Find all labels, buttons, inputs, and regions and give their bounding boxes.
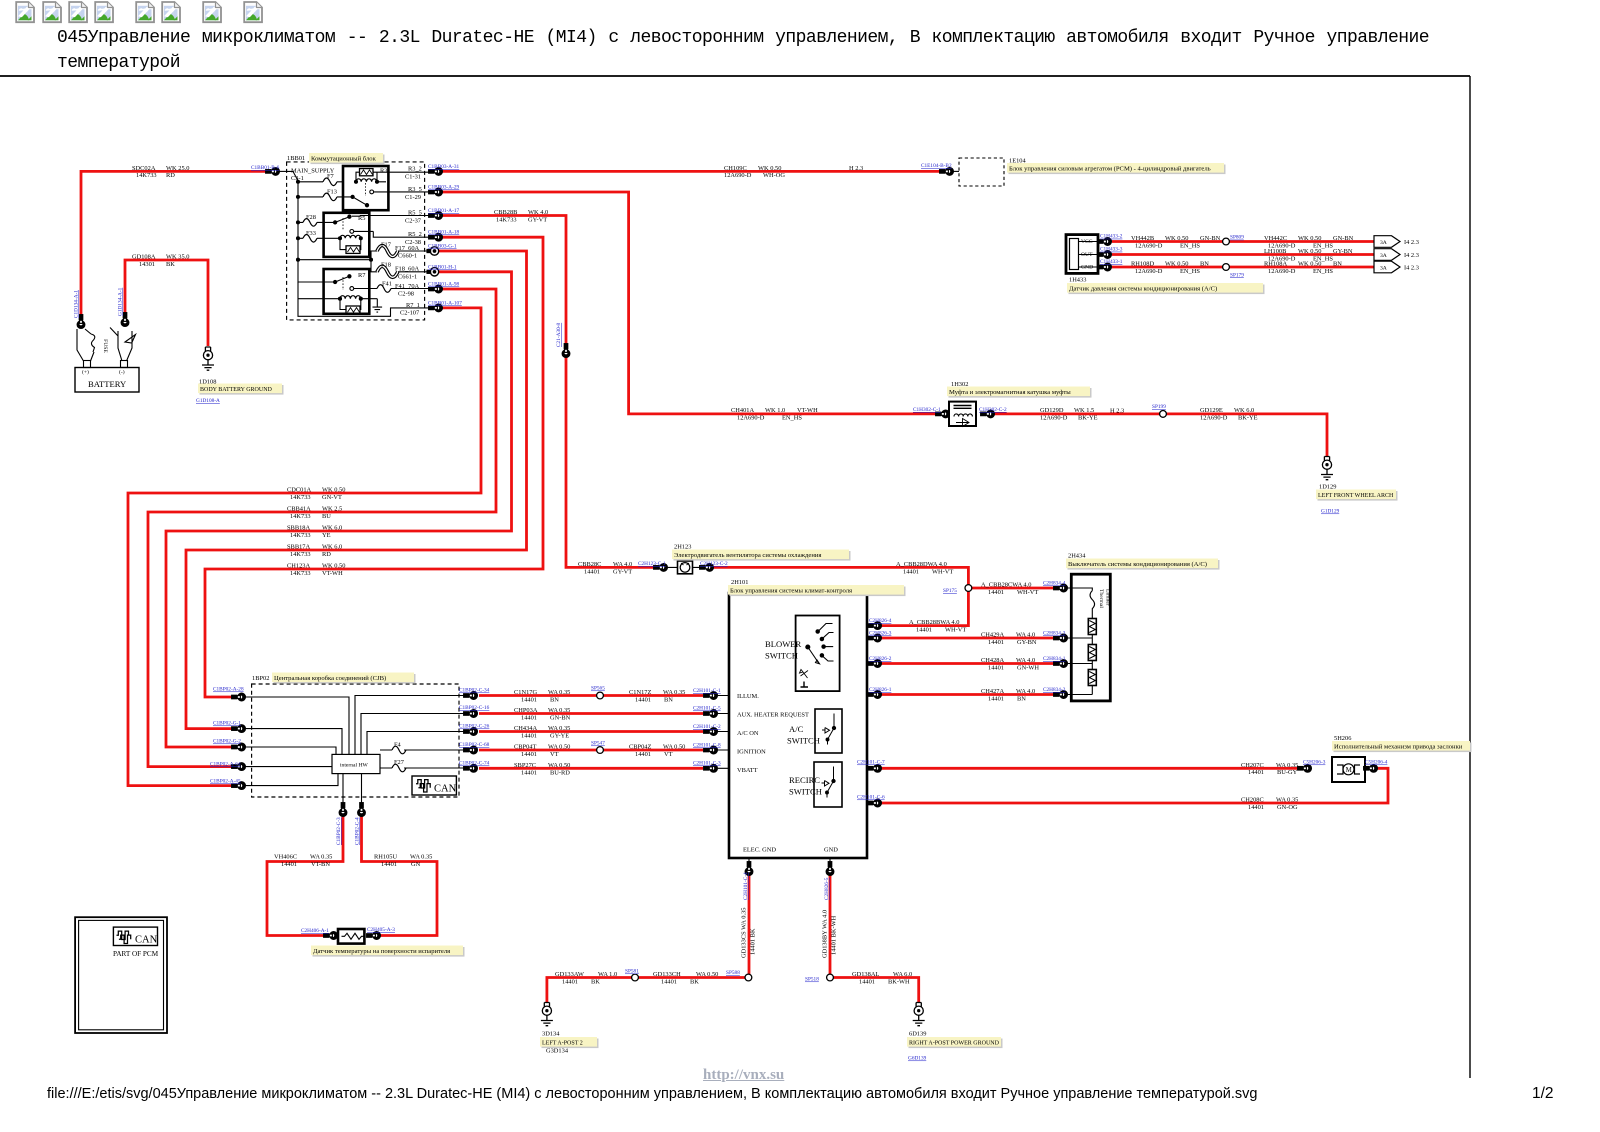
svg-text:C1BP02-A-45: C1BP02-A-45 [210, 779, 241, 785]
wire CH208C [881, 768, 1388, 803]
wire RH108D/RH108A [1112, 266, 1374, 269]
ground inside 1BB01 [373, 299, 383, 312]
wire CH123A chain [205, 237, 543, 697]
svg-text:WK 25.0: WK 25.0 [166, 165, 189, 172]
svg-text:H 2.3: H 2.3 [1110, 408, 1124, 415]
connector C1BP02-C-34 [464, 692, 478, 700]
svg-text:14401: 14401 [635, 696, 651, 703]
svg-text:CH427A: CH427A [981, 688, 1004, 695]
svg-text:internal HW: internal HW [340, 763, 369, 769]
wire GD108A battery ground [125, 260, 208, 346]
svg-text:BN: BN [1017, 695, 1026, 702]
fan motor 2H123 [678, 561, 693, 574]
svg-text:BN: BN [550, 696, 559, 703]
svg-text:2H101: 2H101 [731, 579, 748, 586]
svg-text:AUX. HEATER REQUEST: AUX. HEATER REQUEST [737, 712, 809, 719]
svg-text:6D139: 6D139 [909, 1031, 926, 1038]
svg-text:SP179: SP179 [1230, 272, 1244, 278]
svg-text:C2H826-3: C2H826-3 [869, 631, 892, 637]
svg-text:GD138AL: GD138AL [852, 971, 879, 978]
connector C2H826-2 [868, 660, 882, 668]
svg-text:CAN: CAN [135, 935, 158, 946]
svg-text:WA 1.0: WA 1.0 [598, 971, 617, 978]
svg-text:WK 0.50: WK 0.50 [1165, 261, 1188, 268]
svg-text:C1BB01-A-18: C1BB01-A-18 [428, 230, 460, 236]
wire CDC01A chain [128, 308, 481, 786]
svg-text:C1BB01-A-98: C1BB01-A-98 [428, 282, 460, 288]
wire SBB17A chain [186, 251, 527, 729]
svg-text:C1BP02-C-4: C1BP02-C-4 [355, 817, 361, 845]
svg-text:14K733: 14K733 [290, 532, 311, 539]
svg-text:VBATT: VBATT [737, 767, 758, 774]
wire CH434A a/c on [479, 730, 703, 733]
svg-text:WK 35.0: WK 35.0 [166, 253, 189, 260]
svg-text:I4 2.3: I4 2.3 [1404, 239, 1419, 246]
svg-text:WA 0.50: WA 0.50 [548, 744, 570, 751]
svg-text:GD108A: GD108A [132, 253, 156, 260]
connector C2H405-A-3 [367, 932, 381, 940]
connector C1BB03-G-1 [427, 247, 439, 255]
RECIRC switch in 2H101 [814, 762, 842, 807]
svg-text:1BP02: 1BP02 [252, 675, 269, 682]
svg-text:G1D108-A: G1D108-A [196, 398, 220, 404]
svg-text:WK 2.5: WK 2.5 [322, 506, 342, 513]
svg-text:C2H101-C-3: C2H101-C-3 [693, 761, 721, 767]
connector C2H834-1 [1054, 660, 1068, 668]
svg-text:WA 0.35: WA 0.35 [663, 689, 685, 696]
svg-text:VH442B: VH442B [1131, 235, 1154, 242]
connector C2H123-C-1 [654, 564, 668, 572]
svg-text:SP175: SP175 [943, 588, 957, 594]
svg-text:3A: 3A [1380, 240, 1387, 246]
svg-text:14401: 14401 [1248, 804, 1264, 811]
svg-text:C1D134-A-1: C1D134-A-1 [74, 290, 80, 318]
svg-text:IGNITION: IGNITION [737, 749, 766, 756]
svg-text:FUSE: FUSE [102, 339, 108, 353]
svg-text:C1N17G: C1N17G [514, 689, 537, 696]
A/C switch in 2H101 [815, 709, 842, 753]
svg-text:VH406C: VH406C [274, 854, 297, 861]
svg-text:R3_5: R3_5 [408, 186, 422, 193]
svg-text:F28: F28 [306, 214, 316, 221]
svg-text:F17_60A: F17_60A [395, 245, 420, 252]
svg-text:GN-BN: GN-BN [550, 714, 571, 721]
svg-text:VCC: VCC [1081, 239, 1093, 245]
svg-text:WK 0.50: WK 0.50 [1165, 235, 1188, 242]
svg-text:WK 1.5: WK 1.5 [1074, 407, 1094, 414]
svg-text:C1H302-C-1: C1H302-C-1 [913, 407, 941, 413]
svg-text:14K733: 14K733 [290, 513, 311, 520]
svg-text:BK: BK [690, 978, 699, 985]
svg-text:F18: F18 [381, 262, 391, 269]
svg-text:G1D134-A-1: G1D134-A-1 [118, 287, 124, 316]
svg-text:SDC02A: SDC02A [132, 165, 156, 172]
wire GD138BY gnd down [829, 875, 832, 978]
svg-text:C2H826-1: C2H826-1 [869, 687, 892, 693]
svg-text:EN_HS: EN_HS [1313, 268, 1333, 275]
svg-text:C2H826-4: C2H826-4 [869, 618, 892, 624]
connector C1E104-B-B2 [940, 168, 954, 176]
wire VH442B/VH442C [1112, 240, 1374, 243]
svg-text:GY-VT: GY-VT [613, 568, 632, 575]
wire CHP03A aux heater [479, 712, 703, 715]
svg-text:Выключатель системы кондициони: Выключатель системы кондиционирования (А… [1068, 561, 1207, 568]
svg-text:I4 2.3: I4 2.3 [1404, 252, 1419, 259]
svg-text:SP565: SP565 [591, 686, 605, 692]
svg-text:C1BP02-C-16: C1BP02-C-16 [459, 705, 490, 711]
wire C1N17G/C1N17Z illum [479, 694, 703, 697]
svg-text:SP518: SP518 [805, 977, 819, 983]
svg-text:Исполнительный механизм привод: Исполнительный механизм привода заслонки [1334, 743, 1463, 750]
relay R7 [298, 269, 377, 314]
connector C2H101-C-8 [704, 746, 718, 754]
svg-text:GND: GND [824, 847, 838, 854]
svg-text:R7: R7 [358, 272, 366, 279]
svg-text:SWITCH: SWITCH [765, 651, 798, 661]
svg-text:SBB18A: SBB18A [287, 525, 310, 532]
wire CBP04T ignition [479, 749, 703, 752]
svg-text:GD129E: GD129E [1200, 407, 1223, 414]
svg-text:BLOWER: BLOWER [765, 639, 802, 649]
svg-text:WK 6.0: WK 6.0 [322, 525, 342, 532]
svg-text:CBP04Z: CBP04Z [629, 744, 651, 751]
svg-text:F41: F41 [382, 281, 392, 288]
svg-text:RH108D: RH108D [1131, 261, 1154, 268]
svg-text:G3D134: G3D134 [546, 1048, 569, 1055]
svg-text:C1-29: C1-29 [405, 194, 421, 201]
CJB 1BP02 (dashed) [252, 684, 459, 797]
svg-text:14401: 14401 [521, 696, 537, 703]
svg-text:WA 4.0: WA 4.0 [1016, 632, 1035, 639]
wire RH105U temp sensor right [362, 816, 438, 936]
connector C1H302-C-1 [936, 410, 950, 418]
svg-text:14401: 14401 [521, 751, 537, 758]
splice SP565 [597, 692, 604, 699]
svg-text:14401: 14401 [903, 568, 919, 575]
svg-text:C1BP02-C-34: C1BP02-C-34 [459, 688, 490, 694]
svg-text:(-): (-) [119, 369, 125, 376]
svg-text:BN: BN [664, 696, 673, 703]
svg-text:Блок управления силовым агрега: Блок управления силовым агрегатом (PCM) … [1009, 165, 1211, 172]
wire VH406C temp sensor left [267, 816, 343, 936]
relay R5 [324, 213, 430, 257]
svg-text:C1H302-C-2: C1H302-C-2 [979, 407, 1007, 413]
bus MAIN_SUPPLY [287, 171, 377, 282]
svg-text:C2H834-3: C2H834-3 [1043, 631, 1066, 637]
svg-text:14K733: 14K733 [496, 216, 517, 223]
connector C2H101-C-1 [704, 692, 718, 700]
svg-text:BK-WH: BK-WH [888, 978, 910, 985]
A/C cutoff switch 2H434 [1065, 574, 1111, 701]
svg-text:Thermal: Thermal [1098, 589, 1104, 608]
svg-text:G6D139: G6D139 [908, 1056, 927, 1062]
splice SP518 [827, 974, 834, 981]
svg-text:SP547: SP547 [591, 741, 605, 747]
svg-text:GN-BN: GN-BN [1200, 235, 1221, 242]
connector C1BB01-H-1 [427, 268, 439, 276]
svg-text:C1BB03-G-1: C1BB03-G-1 [428, 244, 457, 250]
svg-text:CH123A: CH123A [287, 563, 310, 570]
svg-text:C5H206-3: C5H206-3 [1303, 760, 1326, 766]
connector C1H433-3 [1098, 251, 1112, 259]
svg-text:GY-YE: GY-YE [550, 732, 569, 739]
svg-text:LEFT FRONT WHEEL ARCH: LEFT FRONT WHEEL ARCH [1318, 493, 1394, 499]
2H101 right pins gnd [749, 858, 830, 864]
svg-text:R7_1: R7_1 [406, 302, 420, 309]
svg-text:RIGHT A-POST POWER GROUND: RIGHT A-POST POWER GROUND [909, 1041, 1000, 1047]
splice SP179 [1223, 264, 1230, 271]
svg-text:C2H101-C-1: C2H101-C-1 [693, 688, 721, 694]
splice SP581 [632, 974, 639, 981]
svg-text:VT-WH: VT-WH [797, 407, 818, 414]
svg-text:CH401A: CH401A [731, 407, 754, 414]
svg-text:1H302: 1H302 [951, 381, 968, 388]
svg-text:C2H101-C-8: C2H101-C-8 [693, 743, 721, 749]
connector C1H302-C-2 [981, 410, 995, 418]
svg-text:WK 1.0: WK 1.0 [765, 407, 785, 414]
svg-text:CH434A: CH434A [514, 725, 537, 732]
title underline [0, 75, 1470, 77]
svg-text:C1E104-B-B2: C1E104-B-B2 [921, 163, 952, 169]
svg-text:Центральная коробка соединений: Центральная коробка соединений (CJB) [274, 675, 386, 682]
wire GD133CS elec gnd down [748, 875, 751, 978]
svg-text:14401: 14401 [521, 714, 537, 721]
svg-text:WK 0.50: WK 0.50 [1298, 261, 1321, 268]
svg-text:GD138BY WA 4.0: GD138BY WA 4.0 [822, 910, 829, 958]
svg-text:C1BP02-C-68: C1BP02-C-68 [459, 742, 490, 748]
splice SP547 [597, 747, 604, 754]
connector C2H406-A-1 [324, 932, 338, 940]
wire CH427A [881, 693, 1055, 696]
svg-text:C2H834-2: C2H834-2 [1043, 687, 1066, 693]
svg-text:GN-BN: GN-BN [1333, 235, 1354, 242]
svg-text:14401 BK: 14401 BK [750, 928, 757, 955]
svg-text:WK 0.50: WK 0.50 [1298, 248, 1321, 255]
svg-text:A/C: A/C [789, 724, 804, 734]
svg-text:SWITCH: SWITCH [787, 736, 820, 746]
svg-text:CDC01A: CDC01A [287, 487, 312, 494]
svg-text:CHP03A: CHP03A [514, 707, 538, 714]
svg-text:F41_70A: F41_70A [395, 283, 420, 290]
svg-text:12A690-D: 12A690-D [1268, 268, 1296, 275]
svg-text:14401: 14401 [635, 751, 651, 758]
svg-text:BATTERY: BATTERY [88, 379, 126, 389]
svg-text:WA 6.0: WA 6.0 [893, 971, 912, 978]
svg-text:WA 0.35: WA 0.35 [548, 707, 570, 714]
splice SP175 [965, 585, 972, 592]
svg-text:BODY BATTERY GROUND: BODY BATTERY GROUND [200, 387, 273, 393]
svg-text:R5_2: R5_2 [408, 231, 422, 238]
svg-text:C2H834-4: C2H834-4 [1043, 581, 1066, 587]
svg-text:C2-107: C2-107 [400, 310, 420, 317]
svg-text:3A: 3A [1380, 253, 1387, 259]
relay R3 [343, 166, 430, 210]
svg-text:VT: VT [550, 751, 559, 758]
svg-text:F17: F17 [381, 242, 392, 249]
pressure sensor 1H433 [1066, 235, 1098, 274]
svg-text:M: M [1346, 766, 1353, 774]
PART OF PCM box [75, 917, 167, 1033]
evaporator temp sensor [338, 929, 365, 944]
svg-text:C2H101-C-4: C2H101-C-4 [743, 872, 749, 900]
fuse F18 (60A) [377, 266, 398, 277]
svg-text:G1D129: G1D129 [1321, 509, 1340, 515]
blower switch in 2H101 [796, 616, 840, 692]
wire LH100B [1112, 253, 1374, 256]
svg-text:14401: 14401 [988, 695, 1004, 702]
svg-text:CBP04T: CBP04T [514, 744, 536, 751]
wire CH109C relay to PCM [437, 170, 941, 173]
CAN logo in CJB [412, 776, 456, 795]
svg-text:14401: 14401 [859, 978, 875, 985]
svg-text:14401: 14401 [281, 861, 297, 868]
svg-text:R5_5: R5_5 [408, 210, 422, 217]
svg-text:ELEC. GND: ELEC. GND [743, 847, 776, 854]
svg-text:12A690-D: 12A690-D [1040, 414, 1068, 421]
connector C1BP02-C-68 [464, 746, 478, 754]
svg-text:14401: 14401 [381, 861, 397, 868]
svg-text:VT-WH: VT-WH [322, 570, 343, 577]
svg-text:A_CBB28BWA 4.0: A_CBB28BWA 4.0 [909, 619, 959, 626]
wire CH207C [881, 767, 1299, 770]
clutch coil 1H302 [949, 402, 976, 427]
svg-text:GND: GND [1081, 265, 1093, 271]
wire GD129D/GD129E clutch to ground 1D129 [983, 414, 1327, 457]
svg-text:OUT: OUT [1081, 252, 1093, 258]
svg-text:CH109C: CH109C [724, 165, 747, 172]
svg-text:C3-1: C3-1 [291, 175, 304, 182]
svg-text:1D108: 1D108 [199, 379, 216, 386]
svg-text:C1BB01-B-6: C1BB01-B-6 [251, 165, 280, 171]
svg-text:C1BP02-A-28: C1BP02-A-28 [213, 687, 244, 693]
svg-text:C1H433-3: C1H433-3 [1100, 247, 1123, 253]
svg-text:VH442C: VH442C [1264, 235, 1287, 242]
svg-text:12A690-D: 12A690-D [737, 414, 765, 421]
connector C1BB03-A-31 [429, 168, 443, 176]
svg-text:C1BB01-A-107: C1BB01-A-107 [428, 301, 462, 307]
svg-text:14401: 14401 [562, 978, 578, 985]
svg-text:C2H123-C-2: C2H123-C-2 [700, 561, 728, 567]
svg-text:BU-GY: BU-GY [1277, 769, 1298, 776]
svg-text:CBB28C: CBB28C [578, 561, 601, 568]
connector C1BP02-C-26 [464, 728, 478, 736]
svg-text:C2H123-C-1: C2H123-C-1 [638, 561, 666, 567]
svg-text:C1BB01-A-17: C1BB01-A-17 [428, 208, 460, 214]
wire GD138AL to ground 6D139 [830, 978, 919, 1003]
svg-text:WH-VT: WH-VT [932, 568, 953, 575]
svg-text:WH-VT: WH-VT [1017, 589, 1038, 596]
svg-text:14K733: 14K733 [290, 570, 311, 577]
svg-text:CH208C: CH208C [1241, 797, 1264, 804]
CJB internal HW box + wiring [332, 754, 380, 773]
svg-text:1D129: 1D129 [1319, 484, 1336, 491]
connector C1H433-1 [1098, 263, 1112, 271]
connector C2H834-3 [1054, 634, 1068, 642]
svg-text:14K733: 14K733 [136, 172, 157, 179]
connector C2H834-4 [1054, 584, 1068, 592]
svg-text:GN: GN [411, 861, 421, 868]
svg-text:WK 0.50: WK 0.50 [758, 165, 781, 172]
svg-text:GD129D: GD129D [1040, 407, 1064, 414]
svg-text:WK 4.0: WK 4.0 [528, 209, 548, 216]
svg-text:Датчик температуры на поверхно: Датчик температуры на поверхности испари… [313, 948, 450, 955]
svg-text:3D134: 3D134 [542, 1031, 560, 1038]
svg-text:GY-BN: GY-BN [1017, 639, 1037, 646]
svg-text:WA 4.0: WA 4.0 [613, 561, 632, 568]
svg-text:BN: BN [1333, 261, 1342, 268]
arrow 3A wire2 [1374, 249, 1400, 261]
climate control module 2H101 [729, 593, 867, 858]
svg-text:R5: R5 [358, 215, 365, 222]
svg-text:VT: VT [664, 751, 673, 758]
svg-text:14401: 14401 [584, 568, 600, 575]
svg-text:RD: RD [322, 551, 331, 558]
svg-text:1H433: 1H433 [1069, 277, 1086, 284]
svg-text:C2H405-A-3: C2H405-A-3 [367, 927, 395, 933]
svg-text:1E104: 1E104 [1009, 158, 1026, 165]
svg-text:GY-BN: GY-BN [1333, 248, 1353, 255]
svg-text:SP809: SP809 [1230, 235, 1244, 241]
svg-text:C1BP02-C-74: C1BP02-C-74 [459, 761, 490, 767]
svg-text:WH-OG: WH-OG [763, 172, 785, 179]
arrow 3A wire1 [1374, 236, 1400, 248]
wire SDC02A battery + [81, 171, 266, 318]
svg-text:WA 0.50: WA 0.50 [663, 744, 685, 751]
svg-text:WH-VT: WH-VT [945, 626, 966, 633]
wire A_CBB28CWA SP175 to 2H434 [968, 587, 1055, 590]
svg-text:A_CBB28DWA 4.0: A_CBB28DWA 4.0 [896, 561, 947, 568]
fuse F33 [303, 235, 317, 243]
wire CBB28B / CBB28C to fan motor [437, 216, 655, 568]
svg-text:WK 0.50: WK 0.50 [322, 563, 345, 570]
svg-text:WK 0.50: WK 0.50 [1298, 235, 1321, 242]
svg-text:3A: 3A [1380, 265, 1387, 271]
svg-text:F7: F7 [327, 173, 335, 180]
svg-text:RH108A: RH108A [1264, 261, 1287, 268]
svg-text:WA 0.35: WA 0.35 [310, 854, 332, 861]
arrow 3A wire3 [1374, 261, 1400, 273]
svg-text:14401: 14401 [521, 732, 537, 739]
svg-text:SBP27C: SBP27C [514, 762, 536, 769]
svg-text:C660-1: C660-1 [398, 253, 417, 260]
connector C1BP02-A-28 [232, 693, 246, 701]
svg-text:VT-BN: VT-BN [311, 861, 330, 868]
svg-text:C21-A30-8: C21-A30-8 [556, 323, 562, 347]
svg-text:BK: BK [591, 978, 600, 985]
svg-text:SP199: SP199 [1152, 404, 1166, 410]
svg-text:12A690-D: 12A690-D [1135, 268, 1163, 275]
svg-text:C1BP02-G-1: C1BP02-G-1 [213, 721, 241, 727]
connector C1H433-2 [1098, 238, 1112, 246]
svg-text:WK 6.0: WK 6.0 [322, 544, 342, 551]
svg-text:WA 4.0: WA 4.0 [1016, 688, 1035, 695]
battery B1 [75, 328, 139, 393]
svg-text:RECIRC: RECIRC [789, 775, 820, 785]
svg-text:C1BP02-G-2: C1BP02-G-2 [213, 739, 241, 745]
connector C2H826-3 [868, 634, 882, 642]
right side pins of 2H101 to 2H434 connectors already drawn [867, 768, 875, 803]
svg-text:C1-31: C1-31 [405, 173, 421, 180]
ground 6D139 [913, 1003, 925, 1026]
svg-text:R3_2: R3_2 [408, 166, 422, 173]
svg-text:SBB17A: SBB17A [287, 544, 310, 551]
connector C1BB01-B-6 [266, 168, 280, 176]
connector C1BP02-A-45 [232, 782, 246, 790]
svg-text:14401: 14401 [988, 639, 1004, 646]
ground 1D129 [1321, 457, 1333, 480]
svg-text:H 2.3: H 2.3 [849, 165, 863, 172]
svg-text:GN-OG: GN-OG [1277, 804, 1298, 811]
